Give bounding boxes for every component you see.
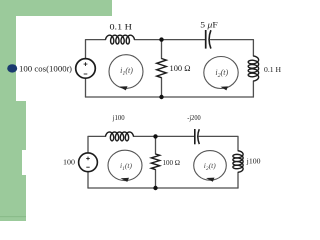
mesh arrow i2 b [206, 178, 215, 182]
mesh loop i2 b [194, 151, 227, 181]
svg-text:j100: j100 [112, 113, 125, 122]
svg-text:0.1 H: 0.1 H [264, 65, 282, 74]
wire middle branch upper [161, 40, 163, 59]
navy bullet ellipse [7, 64, 17, 72]
wire left below source [85, 78, 87, 97]
wire left below source b [87, 172, 89, 188]
wire right below inductor b [237, 172, 239, 188]
inductor j100 top coil [106, 132, 134, 141]
green bar accent line [0, 216, 26, 217]
inductor 0.1H right coil [248, 56, 258, 81]
wire top middle segment [135, 39, 206, 41]
svg-text:0.1 H: 0.1 H [110, 22, 133, 32]
source V1 plus sign [84, 62, 88, 66]
wire top-left segment b [88, 136, 106, 152]
voltage source V2 [79, 153, 98, 172]
inductor j100 right coil [233, 151, 243, 173]
svg-text:i2(t): i2(t) [204, 161, 216, 172]
svg-text:100 cos(1000t): 100 cos(1000t) [19, 64, 72, 73]
source V2 plus sign [86, 157, 90, 161]
white notch in green bar [22, 150, 27, 175]
node dot bottom b [153, 186, 157, 190]
mesh arrow i2 [221, 86, 229, 90]
wire bottom b [88, 187, 238, 189]
svg-text:100 Ω: 100 Ω [170, 63, 191, 73]
resistor 100ohm bottom [151, 154, 159, 170]
source V2 minus sign [86, 166, 89, 168]
node dot bottom [159, 95, 163, 99]
svg-text:j100: j100 [246, 157, 261, 166]
wire bottom [86, 96, 254, 98]
wire top right segment b [199, 136, 238, 150]
source V1 minus sign [84, 73, 88, 75]
capacitor 5uF left plate [205, 30, 207, 49]
svg-text:5 μF: 5 μF [200, 21, 218, 30]
svg-text:-j200: -j200 [187, 113, 201, 122]
wire middle branch upper b [155, 136, 157, 154]
mesh loop i1 [109, 55, 143, 89]
green top-left panel [0, 0, 112, 16]
inductor 0.1H top coil [106, 35, 135, 44]
wire top middle segment b [134, 135, 195, 137]
svg-text:100: 100 [63, 158, 75, 167]
svg-text:i2(t): i2(t) [215, 68, 228, 79]
wire top-left segment [86, 40, 106, 59]
capacitor -j200 curved plate [198, 129, 200, 144]
mesh loop i1 b [108, 150, 142, 180]
mesh arrow i1 [119, 86, 128, 90]
svg-text:i1(t): i1(t) [120, 66, 133, 77]
capacitor -j200 left plate [194, 129, 196, 144]
capacitor 5uF curved plate [209, 30, 211, 48]
node dot top b [153, 134, 157, 138]
wire middle branch lower b [155, 170, 157, 188]
resistor 100ohm top [157, 59, 167, 78]
voltage source V1 [76, 59, 96, 79]
wire top right segment [211, 40, 254, 56]
green lower-left bar [0, 101, 26, 221]
mesh arrow i1 b [121, 178, 130, 182]
svg-text:i1(t): i1(t) [120, 161, 132, 172]
mesh loop i2 [204, 57, 238, 89]
green left strip [0, 0, 16, 101]
node dot top [159, 37, 163, 41]
svg-text:100 Ω: 100 Ω [163, 158, 181, 167]
wire right below inductor [252, 81, 254, 97]
wire middle branch lower [161, 78, 163, 97]
